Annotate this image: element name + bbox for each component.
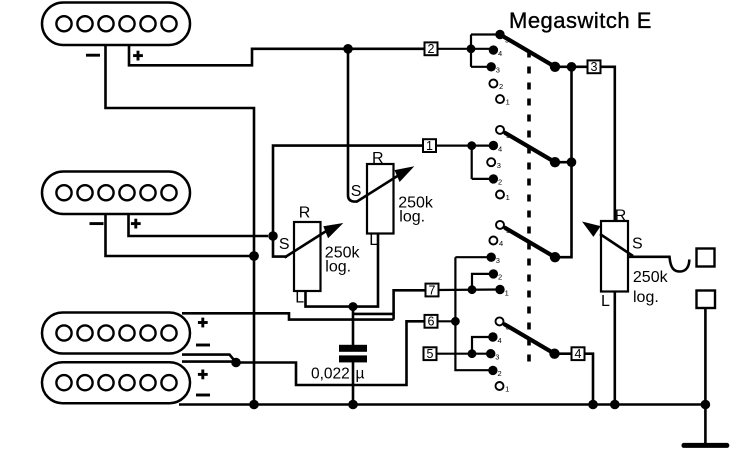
switch section 2 blade (common to position 5) [505,133,555,162]
wire lug2 to S1 terminal 4 [437,48,493,50]
switch section 3 terminal 2 [489,269,502,282]
svg-text:4: 4 [575,347,582,361]
switch section 4 terminal 4 [488,332,501,345]
svg-text:log.: log. [399,209,425,226]
humbucker coil A plus label [198,318,208,328]
lug box 7 [426,283,439,297]
junction dot ground bus / lug4 drop [588,400,598,410]
Megaswitch E title [509,8,652,33]
svg-text:S: S [279,236,290,253]
svg-text:1: 1 [506,98,510,107]
switch section 2 terminal 4 [489,141,502,154]
svg-text:2: 2 [498,273,502,282]
pot P-V L label [601,293,610,310]
switch section 4 common pivot dot [549,349,559,359]
svg-text:R: R [615,208,627,225]
junction dot ground bus / jack sleeve [701,400,711,410]
wire lug7 to S3 terminal 1 [439,288,501,291]
wire tone1 wiper from node A [273,236,287,257]
pot P-V wiper arrow shaft [600,234,633,256]
svg-text:2: 2 [498,369,502,378]
pot P-T2 R label [372,150,384,167]
pot P-T2 wiper arrowhead [395,166,415,182]
pot P-T2 L label [369,232,378,249]
switch section 3 terminal 4 [489,237,503,249]
S1 bracket vertical [470,35,472,67]
junction dot S3 bracket / lug7 wire [468,285,477,294]
junction dot series link [231,358,241,368]
svg-text:log.: log. [325,258,351,275]
wire volume wiper to output jack with strain hook [628,257,689,272]
pot P-V wiper arrowhead [582,222,601,237]
svg-text:2: 2 [499,82,503,91]
switch section 4 terminal 5 [496,317,510,331]
wire humbucker series link coil A minus [182,355,236,363]
svg-text:4: 4 [498,144,502,153]
S2 bracket vertical [471,146,473,179]
switch section 2 terminal 5 [496,126,510,140]
S1 bracket to terminal 5 [471,33,500,35]
wire middle pickup plus to node A [129,213,269,236]
svg-text:S: S [351,183,362,200]
S2 bracket to terminal 2 [472,178,494,180]
svg-text:3: 3 [496,256,500,265]
wire lug5 to S4 terminal 3 [437,353,491,355]
wire humbucker series link coil B plus [182,360,236,363]
wire middle pickup minus to ground vertical [106,213,255,256]
svg-text:R: R [299,204,311,221]
switch section 1 common pivot dot [550,62,560,72]
wire S2 common branch [555,161,572,164]
pickup P2 (middle single coil) [42,172,190,215]
svg-text:L: L [295,289,304,306]
junction dot S1 common branch [567,62,577,72]
switch section 2 terminal 1 [496,191,510,203]
pot P-T1 R label [299,204,311,221]
pickup P2 minus label [90,222,104,225]
pot P-V S label [632,236,643,253]
S3 terminal3 riser down to S4 terminal 2 [455,257,493,370]
svg-text:2: 2 [498,178,502,187]
switch section 3 common pivot dot [550,252,560,262]
wire volume R feed from box 3 [601,67,615,221]
lug box 1 [423,139,436,153]
wire neck pickup plus to lug box 2 [129,45,425,65]
switch section 2 common pivot dot [550,157,560,167]
potentiometer P-V 250k body [601,221,628,292]
lug box 6 [425,315,438,329]
junction dot S1 bracket / lug2 wire [467,44,476,53]
junction dot neck+ / tone2 wiper tap [343,44,353,54]
switch section 3 terminal 1 [495,285,508,298]
pot P-T1 value 250k log. [325,245,361,276]
wire S4 common to lug box 4 [555,352,572,355]
junction dot S2 bracket / lug1 wire [467,141,476,150]
pot P-T1 L stub [0,0,1,1]
wire tone pots L bus [306,232,379,307]
switch section 4 blade (common to position 5) [505,324,555,353]
junction dot tone L bus / cap top [349,302,358,311]
pot P-T1 wiper arrowhead [323,223,343,238]
switch section 2 terminal 3 [487,158,501,170]
svg-text:250k: 250k [633,269,669,286]
wire tone2 wiper drop from neck+ node [348,49,358,202]
wire series link to lug box 6 [236,321,425,385]
pickup P2 plus label [131,219,141,229]
ground symbol bar [682,443,730,448]
pot P-T2 S label [351,183,362,200]
wire S1 common down to S2 common [570,67,573,162]
wire S1 common to lug box 3 [555,66,588,69]
S1 bracket to terminal 3 [471,66,491,68]
svg-text:L: L [601,293,610,310]
lug box 4 [572,347,585,361]
pot P-T2 wiper arrow shaft [357,173,403,202]
svg-text:µ: µ [356,365,365,382]
svg-text:3: 3 [591,60,598,74]
potentiometer P-T2 250k body [367,164,394,234]
svg-text:7: 7 [429,283,436,297]
humbucker coil B minus label [196,394,210,397]
pot P-T1 S label [279,236,290,253]
wire lug1 to S2 terminal 4 [436,145,493,147]
wire cap node to lug7 riser [354,313,394,316]
svg-text:S: S [632,236,643,253]
svg-text:5: 5 [427,347,434,361]
svg-text:Megaswitch E: Megaswitch E [509,8,652,33]
potentiometer P-T1 250k body [294,222,321,291]
wire S3 terminal 3 to left riser [455,256,491,258]
wire lug6 to riser junction [438,320,456,322]
capacitor C1 value label 0,022u [311,365,365,382]
wire humbucker coil A plus to lug 7 riser [182,313,394,319]
output jack sleeve square [697,291,716,309]
node A junction dot (middle+ / tone1 wiper / lug1) [268,231,278,241]
humbucker coil A (bridge, upper coil) [42,313,190,354]
S3 bracket to terminal 2 [472,274,493,290]
switch section 1 terminal 1 [496,95,510,107]
capacitor C1 plate 2 [339,355,367,362]
output jack tip square [697,249,715,267]
wire S2 common down to S3 common [555,162,572,257]
wire node A up and right to lug box 1 [273,146,423,236]
switch section 1 terminal 2 [489,80,503,92]
lug box 5 [424,347,437,361]
capacitor C1 plate 1 [339,345,367,352]
svg-text:3: 3 [495,353,499,362]
lug box 2 [425,42,438,56]
svg-text:0,022: 0,022 [311,365,350,382]
wire lug7 riser (vertical) to box 7 [394,290,425,319]
S4 bracket to terminal 4 [472,337,493,354]
switch section 1 blade (common to position 5) [500,35,555,67]
switch lever dashed linkage [527,51,531,363]
pot P-T2 value 250k log. [398,195,434,226]
junction dot S4 bracket / lug5 wire [468,349,477,358]
junction dot ground bus / volume L [610,400,620,410]
humbucker coil A minus label [196,344,210,347]
junction dot ground bus / pickup grounds [249,400,259,410]
svg-text:3: 3 [497,161,501,170]
svg-text:log.: log. [633,289,659,306]
switch section 1 terminal 3 [487,62,500,74]
humbucker coil B plus label [198,370,208,380]
svg-text:2: 2 [428,42,435,56]
wire neck pickup minus to ground bus [106,45,255,405]
svg-text:6: 6 [428,315,435,329]
pickup P1 plus label [133,51,143,61]
svg-text:4: 4 [499,239,503,248]
pickup P1 (neck single coil) [42,3,190,46]
svg-text:3: 3 [496,66,500,75]
lug box 3 [588,60,601,74]
switch section 3 terminal 5 [496,221,510,235]
pot P-V R label [615,208,627,225]
switch section 4 terminal 2 [488,366,501,379]
svg-text:1: 1 [505,288,509,297]
ground bus along bottom [179,403,705,406]
svg-text:L: L [369,232,378,249]
switch section 2 terminal 2 [489,174,502,187]
svg-text:1: 1 [426,139,433,153]
svg-text:4: 4 [498,49,502,58]
junction dot lug6 / riser [451,317,460,326]
wire lug4 to ground bus [585,354,594,405]
switch section 4 terminal 1 [496,382,510,394]
wire cap bottom lead [352,361,355,405]
svg-text:1: 1 [505,385,509,394]
junction dot middle minus on ground drop [249,251,259,261]
pot P-V value 250k log. [633,269,669,306]
wire cap top lead [352,307,355,346]
svg-text:4: 4 [498,336,502,345]
pickup P1 minus label [86,54,100,57]
wire volume L to ground bus [613,292,616,405]
pot P-T1 wiper arrow shaft [285,228,332,258]
svg-text:R: R [372,150,384,167]
switch section 4 terminal 3 [486,349,499,362]
junction dot S2 common branch [567,157,577,167]
wire jack sleeve to ground [704,308,707,443]
switch section 1 terminal 4 [489,45,502,58]
switch section 3 blade (common to position 5) [505,228,555,257]
humbucker coil B (bridge, lower coil) [42,362,190,403]
switch section 3 terminal 3 [487,253,500,265]
junction dot ground bus / capacitor [348,400,358,410]
pot P-T1 L label [295,289,304,306]
switch section 1 terminal 5 [495,30,509,45]
svg-text:1: 1 [506,193,510,202]
